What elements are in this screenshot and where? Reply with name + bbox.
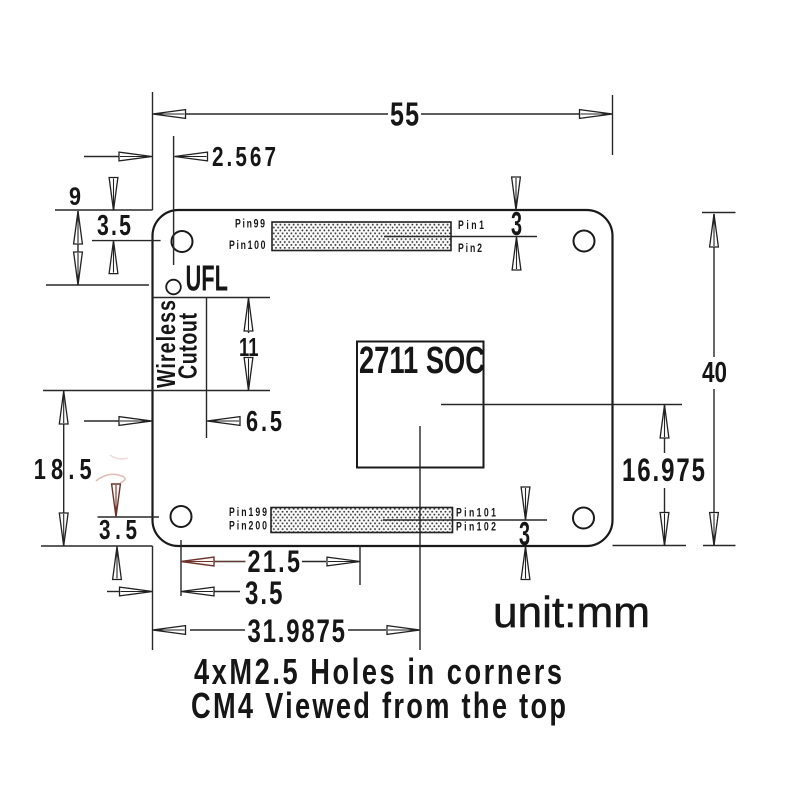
svg-text:2711 SOC: 2711 SOC: [359, 340, 485, 382]
svg-text:Pin2: Pin2: [458, 243, 482, 255]
svg-text:UFL: UFL: [186, 258, 229, 299]
svg-text:9: 9: [69, 182, 81, 210]
svg-text:11: 11: [239, 332, 259, 361]
svg-text:16.975: 16.975: [622, 452, 705, 488]
svg-text:3: 3: [511, 206, 522, 243]
svg-text:Pin199: Pin199: [229, 507, 267, 519]
svg-text:CM4 Viewed from the top: CM4 Viewed from the top: [191, 685, 566, 726]
svg-text:21.5: 21.5: [248, 544, 301, 579]
svg-text:40: 40: [702, 357, 727, 389]
svg-text:6.5: 6.5: [246, 406, 282, 438]
svg-text:3: 3: [519, 516, 530, 553]
svg-text:2.567: 2.567: [212, 142, 276, 173]
svg-text:55: 55: [390, 96, 419, 133]
svg-text:Pin99: Pin99: [235, 218, 265, 230]
svg-text:18.5: 18.5: [34, 454, 92, 486]
svg-text:unit:mm: unit:mm: [493, 588, 650, 637]
svg-text:Pin100: Pin100: [229, 240, 266, 252]
svg-text:3.5: 3.5: [97, 210, 131, 242]
svg-text:Pin200: Pin200: [229, 520, 267, 532]
svg-text:3.5: 3.5: [245, 575, 283, 611]
svg-text:Pin1: Pin1: [458, 220, 484, 232]
svg-text:3.5: 3.5: [99, 515, 137, 546]
svg-text:Cutout: Cutout: [173, 313, 202, 379]
